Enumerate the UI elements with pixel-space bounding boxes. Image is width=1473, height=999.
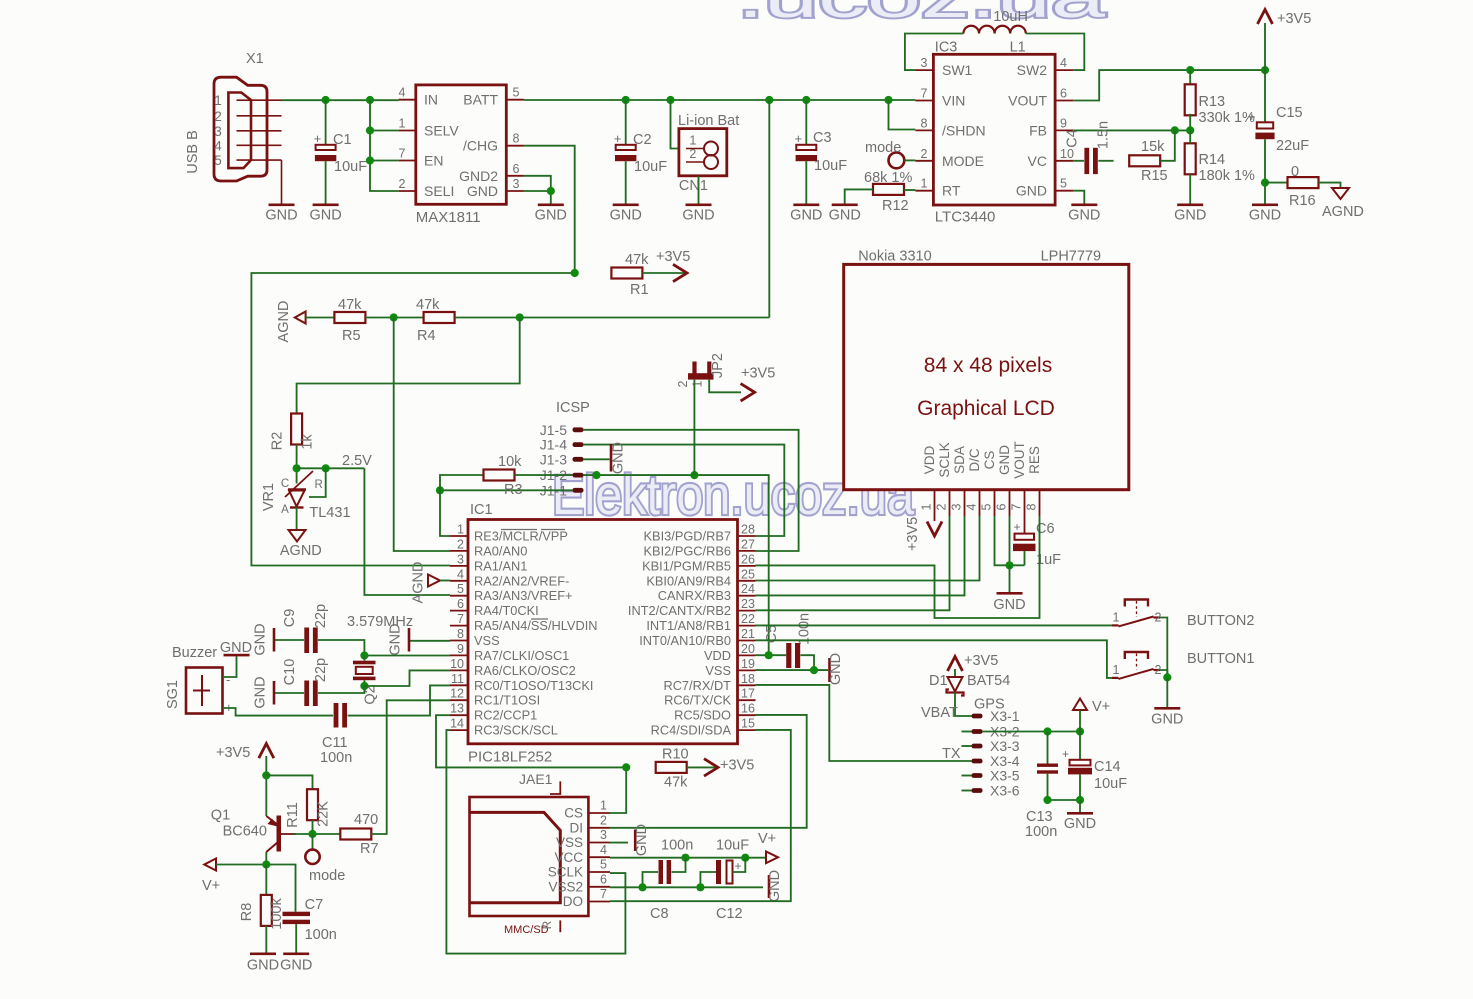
junction at EN: [366, 156, 374, 164]
wire /CHG net down and left to RA1: [524, 146, 575, 273]
svg-text:47k: 47k: [338, 297, 362, 313]
junction +3V5/R11: [262, 771, 270, 779]
svg-text:GND: GND: [1064, 816, 1096, 832]
svg-text:TL431: TL431: [309, 505, 350, 521]
svg-text:R5: R5: [342, 328, 361, 344]
wire C14 top: [1079, 732, 1081, 760]
svg-text:RA7/CLKI/OSC1: RA7/CLKI/OSC1: [474, 648, 569, 663]
svg-text:2.5V: 2.5V: [342, 453, 372, 469]
junction /CHG at R1: [571, 269, 579, 277]
wire gnd to C9: [275, 639, 304, 641]
resistor R2: [291, 414, 302, 445]
wire R3 right to J1-2 row: [515, 474, 573, 476]
svg-text:GND: GND: [682, 208, 714, 224]
power +3V5 arrow at D1: [948, 657, 963, 672]
wire /SHDN tie to VIN: [889, 100, 916, 130]
svg-text:AGND: AGND: [411, 562, 427, 604]
junction at SELV: [366, 126, 374, 134]
svg-text:+: +: [314, 131, 322, 146]
svg-text:IC1: IC1: [470, 502, 493, 518]
wire buzzer minus to ground: [223, 657, 237, 678]
resistor R8: [261, 895, 272, 926]
wire buttons to ground: [1166, 677, 1168, 707]
svg-text:19: 19: [741, 657, 755, 671]
svg-text:R12: R12: [882, 198, 909, 214]
svg-text:INT0/AN10/RB0: INT0/AN10/RB0: [639, 633, 731, 648]
svg-text:GND: GND: [535, 208, 567, 224]
svg-text:100n: 100n: [1025, 824, 1057, 840]
wire GND2 to GND pin: [524, 176, 551, 191]
svg-text:C9: C9: [282, 609, 298, 628]
svg-text:R4: R4: [417, 328, 436, 344]
svg-text:C7: C7: [305, 897, 324, 913]
wire 2.5V to RA3/VREF+ (pin5): [364, 468, 450, 595]
svg-text:TX: TX: [942, 746, 961, 762]
svg-text:+: +: [1062, 747, 1069, 761]
wire R8 to ground: [265, 926, 267, 953]
svg-text:1k: 1k: [300, 434, 316, 450]
ground under C3: [793, 204, 819, 207]
svg-text:18: 18: [741, 672, 755, 686]
svg-text:RC6/TX/CK: RC6/TX/CK: [664, 693, 731, 708]
svg-text:R10: R10: [662, 747, 689, 763]
svg-text:3: 3: [950, 503, 964, 510]
svg-text:GND: GND: [253, 676, 269, 708]
svg-text:5: 5: [457, 582, 464, 596]
wire J1-1 to MCLR junction: [440, 489, 573, 491]
svg-text:V+: V+: [202, 878, 220, 894]
svg-text:8: 8: [1025, 503, 1039, 510]
svg-text:12: 12: [450, 687, 464, 701]
svg-text:GND: GND: [265, 208, 297, 224]
svg-text:BUTTON1: BUTTON1: [1187, 651, 1254, 667]
junction +3V5 rail at C15: [1261, 66, 1269, 74]
svg-text:22p: 22p: [313, 658, 329, 682]
svg-text:X1: X1: [246, 51, 264, 67]
svg-text:+3V5: +3V5: [656, 249, 690, 265]
wire DO to RC4 pin15: [610, 730, 791, 901]
wire C1 to ground: [325, 161, 327, 203]
svg-text:R13: R13: [1199, 94, 1226, 110]
svg-text:RA4/T0CKI: RA4/T0CKI: [474, 603, 539, 618]
ground at VSS2 (rotated): [768, 875, 771, 898]
svg-text:22: 22: [741, 612, 755, 626]
svg-text:7: 7: [1010, 503, 1024, 510]
ground AGND under TL431: [289, 530, 306, 542]
svg-text:C11: C11: [322, 735, 348, 751]
svg-text:4: 4: [600, 843, 607, 857]
pin J1-1 of ICSP: [540, 482, 584, 498]
svg-text:RA5/AN4/SS/HLVDIN: RA5/AN4/SS/HLVDIN: [474, 618, 598, 633]
ground under C13 C14: [1064, 812, 1096, 832]
wire GND pin3 to ground: [524, 191, 551, 204]
svg-text:GND: GND: [1016, 183, 1047, 199]
wire to R16: [1265, 182, 1288, 184]
wire J1-5 to RB6 (pin27): [583, 430, 799, 551]
svg-text:SDA: SDA: [952, 446, 967, 474]
svg-text:27: 27: [741, 537, 755, 551]
wire crystal bottom: [363, 680, 365, 686]
svg-text:AGND: AGND: [280, 543, 322, 559]
svg-text:C12: C12: [716, 906, 743, 922]
wire VSS to ground: [610, 842, 628, 844]
junction BATT at CN1: [666, 96, 674, 104]
svg-text:2: 2: [921, 147, 928, 161]
wire to R11 top: [266, 775, 312, 789]
wire SW1 to L1: [905, 34, 964, 71]
wire R10 row to RC2 pin13: [436, 715, 626, 767]
junction divider at RA0 drop: [390, 313, 398, 321]
svg-text:1: 1: [691, 380, 705, 387]
svg-text:6: 6: [600, 872, 607, 886]
svg-text:+3V5: +3V5: [964, 653, 998, 669]
svg-text:10: 10: [1060, 147, 1074, 161]
junction FB at R15: [1171, 126, 1179, 134]
junction +3V5 rail at R13: [1186, 66, 1194, 74]
LCD module Nokia 3310 body: [844, 264, 1129, 489]
wire R3 left to MCLR junction: [440, 475, 484, 490]
pin 3 SDA of LCD: [950, 446, 968, 516]
svg-text:SELV: SELV: [424, 123, 459, 139]
junction BATT at /SHDN drop: [884, 96, 892, 104]
buzzer SG1: [186, 668, 223, 714]
wire +3V5 riser: [1264, 23, 1266, 70]
wire VIN riser down to divider row: [768, 100, 770, 318]
svg-text:21: 21: [741, 627, 755, 641]
wire VDD pin20 to C5: [756, 654, 787, 656]
wire C7 to ground: [295, 924, 297, 952]
svg-text:Li-ion Bat: Li-ion Bat: [678, 113, 739, 129]
svg-text:8: 8: [921, 116, 928, 130]
jumper JP2: [688, 362, 714, 380]
wire R14 to ground: [1189, 174, 1191, 203]
svg-text:RA2/AN2/VREF-: RA2/AN2/VREF-: [474, 573, 569, 588]
wire C11 to RC0 pin11: [348, 685, 451, 715]
switch BUTTON1: [1112, 652, 1162, 679]
svg-text:1: 1: [399, 117, 406, 131]
diode D1 BAT54: [947, 677, 964, 696]
pin J1-4 of ICSP: [540, 437, 584, 453]
svg-text:17: 17: [741, 687, 755, 701]
svg-text:GND: GND: [1249, 208, 1281, 224]
resistor R5: [334, 312, 365, 323]
capacitor C10: [304, 681, 309, 707]
wire LCD SDA to RB3 pin24: [756, 516, 965, 595]
svg-text:+: +: [795, 131, 803, 146]
svg-text:GND: GND: [611, 442, 627, 474]
svg-text:BUTTON2: BUTTON2: [1187, 613, 1254, 629]
svg-text:IN: IN: [424, 92, 438, 108]
wire VSS2 rail: [610, 886, 763, 888]
svg-text:1: 1: [689, 134, 696, 148]
svg-text:C14: C14: [1094, 759, 1121, 775]
svg-text:10: 10: [450, 657, 464, 671]
wire C6 bottom to GND row: [1024, 551, 1026, 565]
svg-text:13: 13: [450, 702, 464, 716]
wire LCD CS to GND row: [995, 516, 1025, 565]
power +3V5 down arrow at LCD VDD: [927, 522, 942, 537]
svg-text:BATT: BATT: [463, 92, 498, 108]
svg-text:+: +: [1248, 109, 1256, 124]
svg-text:7: 7: [600, 887, 607, 901]
svg-text:10uF: 10uF: [814, 158, 847, 174]
capacitor C14: [1062, 747, 1092, 774]
wire R7 to RC1 pin12: [371, 700, 450, 834]
junction VCC at C12: [741, 854, 749, 862]
svg-text:6: 6: [1060, 87, 1067, 101]
wire R11 to base row: [312, 820, 314, 834]
mode terminal circle at Q1: [305, 850, 319, 864]
ground under R14: [1177, 204, 1203, 207]
wire SCLK to RC3 pin14: [446, 730, 625, 954]
svg-text:SCLK: SCLK: [548, 865, 583, 880]
svg-text:GND: GND: [253, 623, 269, 655]
IC1 PIC18LF252 body: [450, 520, 756, 744]
svg-text:7: 7: [921, 87, 928, 101]
svg-text:15k: 15k: [1141, 139, 1165, 155]
svg-text:2: 2: [935, 503, 949, 510]
svg-text:GND: GND: [790, 208, 822, 224]
svg-text:VSS2: VSS2: [548, 879, 583, 894]
resistor R10: [656, 762, 687, 773]
svg-text:1: 1: [920, 503, 934, 510]
svg-text:10uF: 10uF: [334, 159, 367, 175]
svg-text:/SHDN: /SHDN: [942, 122, 986, 138]
wire VSS pin19 to ground: [756, 669, 829, 671]
svg-text:R1: R1: [630, 282, 649, 298]
junction LCD GND: [1005, 561, 1013, 569]
pin J1-5 of ICSP: [540, 422, 584, 438]
junction CS/R10: [622, 763, 630, 771]
junction VSS2 at C12: [696, 883, 704, 891]
wire DI to RC5 pin16: [610, 715, 807, 828]
junction BATT at C2: [622, 96, 630, 104]
ground at VSS pin19 (rotated): [828, 658, 831, 682]
svg-text:C: C: [281, 478, 289, 490]
wire USB shield to ground: [281, 160, 283, 203]
svg-text:2: 2: [689, 147, 696, 161]
svg-text:A: A: [281, 504, 289, 516]
svg-text:22K: 22K: [316, 801, 332, 827]
wire C12 left to VSS2 rail: [700, 872, 716, 887]
ground under MAX1811: [538, 204, 564, 207]
connector JAE1 MMC/SD body: [470, 781, 611, 932]
svg-text:VOUT: VOUT: [1012, 441, 1027, 479]
wire RB1 pin22 to BUTTON2: [756, 624, 1114, 626]
svg-text:2: 2: [399, 177, 406, 191]
svg-text:25: 25: [741, 567, 755, 581]
wire chain down to R2: [297, 318, 520, 414]
junction crystal bottom: [360, 682, 368, 690]
wire R16 to AGND: [1319, 183, 1341, 188]
svg-text:VSS: VSS: [556, 835, 583, 850]
junction VDD at C5: [765, 651, 773, 659]
wire C4 to R15: [1098, 160, 1113, 162]
wire R15 up to FB: [1160, 130, 1175, 160]
svg-text:22p: 22p: [313, 604, 329, 628]
wire R13 top: [1189, 70, 1191, 86]
svg-text:RES: RES: [1027, 446, 1042, 474]
svg-text:28: 28: [741, 523, 755, 537]
wire LTC GND pin to ground: [1073, 191, 1084, 204]
power V+ arrow left: [204, 859, 216, 871]
pin 6 GND of LCD: [995, 445, 1013, 516]
resistor R12: [873, 184, 904, 195]
wire crystal top stub: [363, 656, 365, 661]
wire TL431 anode to AGND: [296, 508, 298, 531]
svg-text:6: 6: [457, 597, 464, 611]
power +3V5 arrow at JP2: [741, 384, 755, 401]
wire C9 to crystal top: [318, 640, 364, 656]
svg-text:GND: GND: [829, 208, 861, 224]
wire C14 bottom: [1079, 774, 1081, 800]
svg-text:GND: GND: [247, 958, 279, 974]
wire +3V5 to Q1 emitter: [265, 756, 267, 816]
svg-text:3: 3: [600, 828, 607, 842]
svg-text:/CHG: /CHG: [463, 138, 498, 154]
svg-text:V+: V+: [1092, 699, 1110, 715]
ground under X1: [269, 204, 295, 207]
pin 2 SCLK of LCD: [935, 442, 953, 516]
svg-text:4: 4: [1060, 56, 1067, 70]
wire LCD RES to RB5 pin26: [756, 516, 1040, 618]
svg-text:C13: C13: [1026, 809, 1053, 825]
svg-text:RC5/SDO: RC5/SDO: [674, 708, 731, 723]
svg-text:R8: R8: [239, 903, 255, 922]
switch BUTTON2: [1112, 600, 1162, 627]
svg-text:J1-3: J1-3: [540, 451, 567, 467]
svg-text:10k: 10k: [498, 454, 522, 470]
wire crystal bottom to OSC2 pin10: [364, 670, 450, 686]
svg-text:GND: GND: [467, 183, 498, 199]
svg-text:SELI: SELI: [424, 183, 454, 199]
svg-text:100n: 100n: [320, 750, 352, 766]
svg-text:VCC: VCC: [554, 850, 583, 865]
svg-text:1: 1: [1113, 663, 1120, 677]
capacitor C4: [1084, 148, 1089, 174]
wire BATT rail to LTC3440 VIN: [524, 99, 916, 101]
wire R12 to ground: [845, 189, 873, 203]
wire Q1 collector to V+ row: [265, 852, 267, 865]
wire J1-2 / VDD net to pin20: [583, 475, 769, 655]
pin 1 VDD of LCD: [920, 446, 938, 521]
svg-text:GND: GND: [1151, 712, 1183, 728]
svg-text:2: 2: [214, 109, 222, 124]
svg-text:GND: GND: [1174, 208, 1206, 224]
svg-text:BC640: BC640: [223, 823, 267, 839]
wire AGND to R5: [306, 317, 335, 319]
junction MCLR: [436, 486, 444, 494]
resistor R1: [611, 268, 642, 279]
wire LCD GND to ground: [1009, 565, 1011, 592]
wire R14 top: [1189, 130, 1191, 143]
svg-text:DO: DO: [563, 894, 583, 909]
svg-text:5: 5: [214, 153, 222, 168]
svg-text:KBI3/PGD/RB7: KBI3/PGD/RB7: [644, 529, 731, 544]
capacitor C8: [659, 860, 664, 884]
svg-text:+3V5: +3V5: [1277, 11, 1311, 27]
pin X3-1 of GPS connector: [972, 708, 1020, 724]
svg-text:C1: C1: [333, 132, 352, 148]
svg-text:RE3/MCLR/VPP: RE3/MCLR/VPP: [474, 529, 568, 544]
svg-text:15: 15: [741, 717, 755, 731]
svg-text:R2: R2: [270, 432, 286, 451]
svg-text:C2: C2: [633, 132, 652, 148]
ground AGND left of R5: [295, 312, 306, 324]
svg-text:LPH7779: LPH7779: [1041, 248, 1101, 264]
svg-text:330k 1%: 330k 1%: [1199, 110, 1256, 126]
wire J1-4 to RB7 (pin28): [583, 445, 784, 536]
svg-text:GND: GND: [828, 653, 844, 685]
svg-text:8: 8: [513, 132, 520, 146]
pin J1-3 of ICSP: [540, 451, 584, 467]
svg-text:PIC18LF252: PIC18LF252: [468, 749, 552, 766]
svg-text:VR1: VR1: [261, 483, 277, 511]
svg-text:+: +: [735, 859, 742, 873]
svg-text:Q1: Q1: [211, 808, 230, 824]
capacitor C11: [334, 703, 339, 728]
svg-text:CANRX/RB3: CANRX/RB3: [658, 588, 731, 603]
wire CN1 pin2 to ground: [698, 176, 700, 204]
wire LCD D/C to RB4 pin25: [756, 516, 980, 581]
svg-text:24: 24: [741, 582, 755, 596]
svg-text:LTC3440: LTC3440: [935, 209, 996, 226]
wire R4 to VIN riser: [455, 317, 770, 319]
svg-text:2: 2: [457, 537, 464, 551]
svg-text:VIN: VIN: [942, 93, 965, 109]
svg-text:R3: R3: [504, 482, 523, 498]
svg-text:10uF: 10uF: [716, 838, 749, 854]
wire RX net pin18 to X3-4: [756, 685, 972, 761]
svg-text:20: 20: [741, 642, 755, 656]
wire C1 tap: [325, 100, 327, 145]
svg-text:USB B: USB B: [185, 130, 201, 174]
wire J1-3 to ground: [583, 458, 610, 460]
wire R8 top: [265, 865, 267, 896]
wire JP2 pin2 down to VDD net: [693, 380, 695, 476]
svg-text:R: R: [540, 920, 554, 929]
svg-text:7: 7: [399, 147, 406, 161]
svg-text:mode: mode: [309, 868, 345, 884]
svg-text:RA6/CLKO/OSC2: RA6/CLKO/OSC2: [474, 663, 576, 678]
wire C5 to VSS row: [801, 655, 815, 670]
ground under C2: [613, 204, 639, 207]
wire R1 to +3V5 arrow: [642, 272, 684, 274]
wire MCLR junction to pin1: [440, 490, 450, 536]
svg-text:5: 5: [600, 858, 607, 872]
svg-text:C8: C8: [650, 906, 669, 922]
ground under R8: [247, 953, 279, 974]
wire crystal top to OSC1 pin9: [364, 655, 450, 657]
svg-text:5: 5: [980, 503, 994, 510]
svg-text:23: 23: [741, 597, 755, 611]
svg-text:MAX1811: MAX1811: [416, 209, 481, 226]
ground under buttons: [1151, 707, 1183, 728]
svg-text:GND: GND: [280, 958, 312, 974]
svg-text:GND: GND: [767, 870, 783, 902]
svg-text:RC4/SDI/SDA: RC4/SDI/SDA: [651, 723, 732, 738]
svg-text:SW2: SW2: [1017, 62, 1048, 78]
resistor R4: [424, 312, 455, 323]
ground AGND right: [1332, 188, 1349, 199]
svg-text:X3-5: X3-5: [990, 768, 1020, 784]
svg-text:GND: GND: [610, 208, 642, 224]
wire gnd to C10: [275, 692, 304, 694]
resistor R13: [1185, 84, 1196, 115]
svg-text:JAE1: JAE1: [519, 771, 553, 787]
wire VCC rail to V+: [610, 857, 766, 859]
wire 2.5V node to REF: [297, 467, 365, 469]
